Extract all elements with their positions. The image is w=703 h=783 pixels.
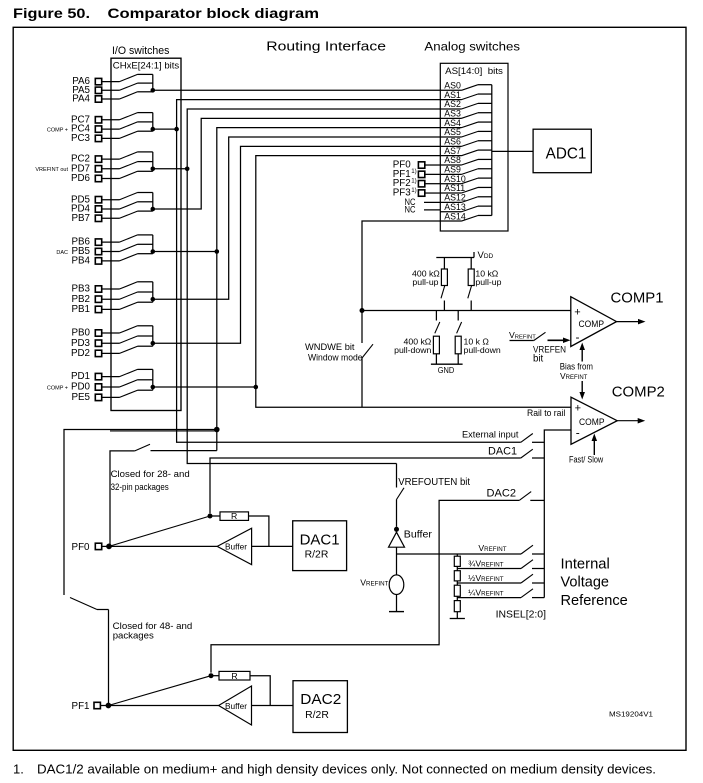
AS4 input line (440, 127, 461, 129)
Bias from VREFINT arrows (581, 350, 583, 362)
svg-text:ADC1: ADC1 (546, 146, 587, 163)
svg-text:R: R (231, 671, 237, 681)
switch blade PD6 (120, 171, 138, 178)
switch blade PD1 (120, 369, 138, 376)
wire G1 to AS0 (153, 89, 441, 91)
svg-text:NC: NC (405, 204, 416, 214)
AS11 stub (478, 186, 492, 188)
pin square PB7 (95, 215, 101, 221)
wire 48-pin switch to PF1 node (108, 610, 110, 706)
wire PB1 to switch (102, 308, 120, 310)
op-amp COMP1 triangle (571, 297, 617, 347)
svg-text:PD6: PD6 (71, 173, 91, 184)
resistor 400k pull-up (443, 258, 445, 270)
stub PB5 (138, 243, 153, 245)
svg-text:PD1: PD1 (71, 371, 90, 382)
AS7 input line (440, 155, 461, 157)
svg-text:Buffer: Buffer (225, 702, 247, 711)
wire fraction row 1 (457, 582, 521, 584)
stub PE5 (138, 389, 153, 391)
stub PA5 (138, 82, 153, 84)
switch blade PA4 (120, 92, 138, 99)
pin square PF0 (95, 543, 101, 549)
switch blade PD5 (120, 193, 138, 200)
AS10 switch blade (462, 178, 479, 184)
svg-text:I/O switches: I/O switches (112, 45, 170, 57)
pin square PD2 (95, 350, 101, 356)
wire PA5 to switch (102, 89, 120, 91)
pin square PA4 (95, 96, 101, 102)
AS9 switch blade (462, 169, 479, 175)
AS1 input line (440, 99, 461, 101)
svg-text:32-pin packages: 32-pin packages (111, 482, 169, 493)
wire G7 to AS6 (153, 146, 441, 343)
junction DAC2 R node (209, 673, 214, 678)
pin square PD4 (95, 206, 101, 212)
switch blade PC3 (120, 131, 138, 138)
svg-text:-: - (576, 426, 580, 440)
pin square PD6 (95, 175, 101, 181)
svg-text:GND: GND (438, 365, 455, 375)
wire G2 to v1 (153, 128, 177, 130)
junction G5 on v4 (215, 249, 220, 254)
wire PB2 to switch (102, 298, 120, 300)
svg-text:1): 1) (411, 178, 417, 185)
AS3 stub (478, 112, 492, 114)
svg-text:Buffer: Buffer (225, 543, 247, 552)
stub PD1 (138, 368, 153, 370)
wire PC2 to switch (102, 158, 120, 160)
svg-text:DAC2: DAC2 (300, 691, 341, 708)
group 7 bracket (152, 326, 154, 346)
junction group 5 output node (151, 249, 156, 254)
COMP1 output wire (617, 321, 639, 323)
switch blade PD4 (120, 202, 138, 209)
resistor ladder INSEL (456, 554, 458, 556)
svg-text:Buffer: Buffer (404, 530, 433, 541)
resistor R (DAC1 feedback) (220, 512, 249, 521)
wire PD5 to switch (102, 199, 120, 201)
wire PA4 to switch (102, 98, 120, 100)
AS11 switch blade (462, 187, 479, 193)
AS4 stub (478, 121, 492, 123)
stub PD6 (138, 170, 153, 172)
wire v7 AS7 / G8 / rail-to-rail to COMP2+ (256, 156, 571, 408)
switch blade PC4 (120, 122, 138, 129)
switch DAC1 (521, 449, 533, 458)
switch Closed for 28- and 32-pin packages (135, 444, 150, 451)
pin square PC7 (95, 117, 101, 123)
wire PD1 to switch (102, 376, 120, 378)
AS1 stub (478, 93, 492, 95)
group 2 bracket (152, 113, 154, 132)
pin square PD1 (95, 373, 101, 379)
svg-text:pull-up: pull-up (412, 277, 438, 287)
junction group 3 output node (151, 167, 156, 172)
svg-text:PD0: PD0 (71, 382, 91, 393)
resistor 10k pull-up (470, 258, 472, 270)
AS13 input line (440, 211, 461, 213)
wire node to 48-pin switch (64, 430, 217, 596)
svg-text:Routing Interface: Routing Interface (266, 38, 386, 53)
pin square PC2 (95, 156, 101, 162)
AS3 input line (440, 117, 461, 119)
switch blade PD7 (120, 162, 138, 169)
wire AS bus to ADC1 (492, 150, 533, 152)
AS13 stub (478, 205, 492, 207)
svg-text:pull-down: pull-down (394, 345, 431, 355)
wire PF1 to AS9 (425, 173, 441, 175)
svg-text:COMP: COMP (579, 319, 605, 330)
ladder resistor 3 (454, 585, 460, 596)
junction group 1 output node (151, 88, 156, 93)
AS8 input line (440, 164, 461, 166)
svg-text:DAC: DAC (56, 250, 68, 256)
wire PF1 to buffer2 (108, 705, 218, 707)
svg-text:Analog switches: Analog switches (424, 40, 520, 54)
stub PD2 (138, 345, 153, 347)
stub PD0 (138, 379, 153, 381)
AS8 switch blade (462, 159, 479, 165)
switch blade PB1 (120, 302, 138, 309)
buffer triangle (VREFINT, pointing up) (389, 532, 405, 547)
wire PC3 to switch (102, 137, 120, 139)
switch blade PC2 (120, 152, 138, 159)
switch VREFEN (510, 340, 534, 342)
stub PB1 (138, 301, 153, 303)
switch blade PA6 (120, 74, 138, 81)
pin square PD7 (95, 166, 101, 172)
AS14 input line (440, 220, 461, 222)
wire G4 to AS3 (153, 118, 441, 209)
switch blade PE5 (120, 390, 138, 397)
group 6 bracket (152, 282, 154, 302)
wire v3 AS2 / VREFOUTEN feed (187, 109, 440, 464)
wire PB7 to switch (102, 217, 120, 219)
wire PD7 to switch (102, 168, 120, 170)
wire second feeder to main node (110, 430, 217, 432)
stub PD3 (138, 335, 153, 337)
group 3 bracket (152, 152, 154, 171)
resistor R (DAC2 feedback) (219, 671, 250, 680)
svg-text:Comparator block diagram: Comparator block diagram (108, 5, 320, 21)
svg-text:PB7: PB7 (71, 213, 90, 224)
pin square PB4 (95, 258, 101, 264)
wire G8 to v7 (153, 386, 256, 388)
svg-text:COMP +: COMP + (47, 385, 68, 391)
svg-text:Internal: Internal (561, 556, 610, 572)
AS0 switch blade (462, 85, 479, 91)
svg-text:Figure 50.: Figure 50. (13, 5, 90, 21)
svg-text:-: - (576, 330, 580, 344)
wire PB3 to switch (102, 288, 120, 290)
wire DAC1 net from R node (210, 458, 521, 513)
I/O switches box CHxE (111, 58, 181, 410)
wire AS14 down to COMP1+ rail (362, 221, 440, 310)
AS2 stub (478, 102, 492, 104)
switch blade PD0 (120, 380, 138, 387)
wire PC7 to switch (102, 119, 120, 121)
pin square PB3 (95, 286, 101, 292)
AS11 input line (440, 192, 461, 194)
stub PC7 (138, 112, 153, 114)
AS5 input line (440, 136, 461, 138)
svg-text:PE5: PE5 (71, 392, 90, 403)
wire v4 AS4 / G5 / DAC switches net (217, 128, 440, 430)
AS9 input line (440, 173, 461, 175)
svg-text:PB4: PB4 (71, 256, 90, 267)
svg-text:Closed for 28- and: Closed for 28- and (111, 469, 190, 480)
switch blade PB4 (120, 254, 138, 261)
wire v1 AS1 / External input (177, 100, 521, 443)
DAC1 box (293, 521, 347, 571)
svg-text:1): 1) (411, 187, 417, 194)
svg-text:PD2: PD2 (71, 348, 90, 359)
svg-text:COMP1: COMP1 (611, 290, 664, 307)
svg-text:DAC2: DAC2 (487, 487, 517, 499)
switch fraction row 2 (521, 589, 533, 598)
group 4 bracket (152, 193, 154, 212)
AS5 stub (478, 130, 492, 132)
wire PE5 to switch (102, 396, 120, 398)
wire G6 to AS5 (153, 137, 441, 299)
ground GND rail (431, 363, 463, 365)
wire VREFINT source to ground (396, 595, 398, 612)
stub PB6 (138, 234, 153, 236)
AS2 input line (440, 108, 461, 110)
wire PF2 to AS10 (425, 183, 441, 185)
svg-text:PF0: PF0 (72, 542, 91, 553)
junction G8 on v7 (254, 385, 259, 390)
pin square PF0 (418, 162, 424, 168)
AS3 switch blade (462, 113, 479, 119)
group 1 bracket (152, 74, 154, 91)
stub PD4 (138, 201, 153, 203)
AS14 stub (478, 214, 492, 216)
wire PD4 to switch (102, 208, 120, 210)
junction DAC1 R node (208, 514, 213, 519)
AS4 switch blade (462, 122, 479, 128)
pin square PB2 (95, 296, 101, 302)
wire buffer to VREFINT source (396, 547, 398, 575)
pin square PB1 (95, 306, 101, 312)
AS0 stub (478, 84, 492, 86)
wire PC4 to switch (102, 128, 120, 130)
AS7 stub (478, 149, 492, 151)
resistor 400k pull-down (435, 311, 437, 321)
wire PF0 to buffer1 (109, 545, 217, 547)
switch DAC2 (519, 492, 531, 501)
wire fraction row 2 (457, 597, 521, 599)
wire G5 to v4 (153, 251, 217, 253)
junction main DAC routing node (214, 427, 220, 433)
svg-text:Rail to rail: Rail to rail (527, 408, 565, 418)
wire PB4 to switch (102, 260, 120, 262)
DAC2 box (293, 681, 347, 733)
wire PF0 node to R feedback node (109, 516, 210, 546)
svg-text:COMP: COMP (579, 417, 605, 428)
switch blade PB5 (120, 244, 138, 251)
svg-text:bit: bit (533, 353, 544, 364)
svg-text:pull-down: pull-down (464, 345, 501, 355)
wire PB0 to switch (102, 332, 120, 334)
stub PB3 (138, 281, 153, 283)
svg-text:1.: 1. (13, 762, 24, 777)
pin square PA5 (95, 87, 101, 93)
switch blade PB7 (120, 211, 138, 218)
switch blade PB3 (120, 282, 138, 289)
AS13 switch blade (462, 206, 479, 212)
switch External input (521, 434, 533, 443)
stub PB2 (138, 291, 153, 293)
Fast/Slow arrow (593, 441, 595, 456)
wire NC to AS12 (424, 201, 440, 203)
wire fraction row 0 (457, 568, 521, 570)
pin square PF2 (418, 181, 424, 187)
wire COMP2 inverting input bus (544, 430, 571, 598)
wire PD6 to switch (102, 178, 120, 180)
AS6 stub (478, 140, 492, 142)
Analog switches box AS (440, 63, 508, 231)
switch VREFINT (521, 545, 533, 554)
svg-text:AS14: AS14 (444, 211, 466, 221)
AS8 stub (478, 158, 492, 160)
AS0 input line (440, 89, 461, 91)
svg-text:PB1: PB1 (71, 304, 90, 315)
svg-text:AS[14:0] bits: AS[14:0] bits (445, 65, 503, 76)
wire PD0 to switch (102, 386, 120, 388)
AS14 switch blade (462, 215, 479, 221)
junction PF1 node (106, 703, 112, 709)
AS12 switch blade (462, 197, 479, 203)
junction COMP1+ rail node (360, 308, 365, 313)
AS10 input line (440, 183, 461, 185)
stub PC2 (138, 151, 153, 153)
svg-text:DAC1: DAC1 (488, 446, 517, 458)
wire COMP1 + input rail (362, 310, 571, 312)
AS12 stub (478, 196, 492, 198)
stub PB0 (138, 325, 153, 327)
svg-text:VREFINT out: VREFINT out (35, 167, 68, 173)
switch fraction row 0 (521, 560, 533, 569)
svg-text:Window mode: Window mode (308, 352, 363, 363)
VDD rail (436, 257, 474, 259)
wire node down to 28/32 switch (216, 430, 218, 451)
svg-text:VREFOUTEN bit: VREFOUTEN bit (398, 477, 470, 488)
junction group 7 output node (151, 341, 156, 346)
VREFINT voltage source circle (389, 575, 404, 595)
junction group 4 output node (151, 207, 156, 212)
wire DAC2 net from R node (211, 500, 519, 672)
group 8 bracket (152, 369, 154, 390)
buffer triangle DAC1 (pointing left) (217, 528, 251, 564)
pin square PA6 (95, 78, 101, 84)
svg-text:COMP +: COMP + (47, 128, 68, 134)
AS12 input line (440, 201, 461, 203)
wire PA6 to switch (102, 81, 120, 83)
COMP2 output arrow (638, 418, 646, 424)
arrow into COMP1 - input (548, 339, 565, 341)
COMP1 output arrow (638, 319, 646, 325)
junction G3 on v3 (185, 167, 190, 172)
stub PB7 (138, 210, 153, 212)
wire PD3 to switch (102, 342, 120, 344)
ladder resistor 1 (454, 556, 460, 566)
switch blade PD3 (120, 336, 138, 343)
svg-text:INSEL[2:0]: INSEL[2:0] (496, 609, 547, 620)
AS9 stub (478, 168, 492, 170)
svg-text:1): 1) (411, 168, 417, 175)
pin square PB0 (95, 330, 101, 336)
junction group 6 output node (151, 297, 156, 302)
switch blade PB2 (120, 292, 138, 299)
pin square PD3 (95, 340, 101, 346)
svg-text:+: + (575, 402, 581, 414)
switch blade PB0 (120, 326, 138, 333)
stub PA4 (138, 91, 153, 93)
pin square PB6 (95, 239, 101, 245)
svg-text:CHxE[24:1] bits: CHxE[24:1] bits (113, 61, 180, 71)
wire buffer1 to DAC1 box (252, 545, 293, 547)
wire G3 to v3 (153, 168, 187, 170)
ground ladder GND bar (450, 618, 465, 620)
wire buffer2 to DAC2 box (252, 705, 294, 707)
switch blade PA5 (120, 83, 138, 90)
wire PB5 to switch (102, 251, 120, 253)
svg-text:R/2R: R/2R (305, 710, 329, 721)
AS2 switch blade (462, 103, 479, 109)
group 5 bracket (152, 235, 154, 254)
svg-text:pull-up: pull-up (475, 277, 501, 287)
svg-text:R: R (231, 511, 237, 521)
resistor 10k pull-down (457, 311, 459, 321)
switch blade PD2 (120, 346, 138, 353)
pin square PC4 (95, 126, 101, 132)
AS10 stub (478, 177, 492, 179)
svg-text:PC3: PC3 (71, 133, 91, 144)
switch blade PB6 (120, 235, 138, 242)
stub PC3 (138, 130, 153, 132)
svg-text:Reference: Reference (561, 593, 628, 609)
op-amp COMP2 triangle (571, 397, 617, 444)
AS5 switch blade (462, 131, 479, 137)
switch WNDWE window mode (361, 311, 363, 344)
wire NC to AS13 (424, 209, 440, 211)
wire PF0 to AS8 (425, 164, 441, 166)
svg-text:packages: packages (113, 631, 154, 642)
svg-text:DAC1: DAC1 (300, 532, 340, 549)
ladder resistor 4 (454, 601, 460, 612)
stub PB4 (138, 253, 153, 255)
wire PF3 to AS11 (425, 192, 441, 194)
stub PA6 (138, 73, 153, 75)
svg-text:COMP2: COMP2 (612, 383, 665, 400)
wire R to buffer1 output (249, 516, 269, 546)
AS6 input line (440, 145, 461, 147)
ADC1 box (533, 129, 591, 173)
svg-text:External input: External input (462, 429, 519, 440)
AS1 switch blade (462, 94, 479, 100)
svg-text:R/2R: R/2R (305, 550, 329, 561)
pin square PD5 (95, 197, 101, 203)
pin square PC3 (95, 135, 101, 141)
AS6 switch blade (462, 141, 479, 147)
pin square PF1 (94, 702, 100, 708)
svg-text:Voltage: Voltage (561, 575, 610, 591)
wire R2 to buffer2 output (250, 676, 270, 706)
pin square PB5 (95, 248, 101, 254)
ground bar under VREFINT source (389, 611, 404, 613)
